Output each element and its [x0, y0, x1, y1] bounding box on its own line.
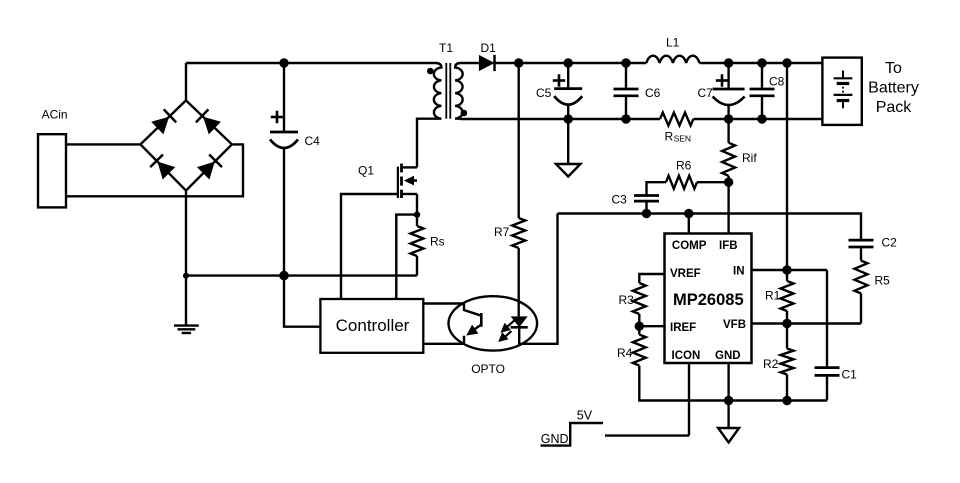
svg-text:MP26085: MP26085	[673, 291, 744, 309]
svg-text:VFB: VFB	[723, 319, 746, 331]
svg-text:R2: R2	[763, 357, 779, 371]
svg-text:C8: C8	[769, 75, 785, 89]
svg-text:Battery: Battery	[868, 80, 919, 97]
svg-text:GND: GND	[541, 432, 569, 446]
svg-text:VREF: VREF	[670, 268, 701, 280]
svg-text:SEN: SEN	[674, 134, 691, 144]
svg-text:Rif: Rif	[742, 151, 757, 165]
svg-text:R7: R7	[494, 225, 510, 239]
svg-text:GND: GND	[715, 350, 741, 362]
svg-text:C7: C7	[698, 86, 714, 100]
svg-text:T1: T1	[439, 41, 453, 55]
svg-text:To: To	[885, 60, 902, 77]
svg-text:R4: R4	[617, 346, 633, 360]
svg-text:IREF: IREF	[670, 322, 696, 334]
svg-text:ICON: ICON	[672, 350, 701, 362]
svg-text:R5: R5	[875, 274, 891, 288]
svg-text:R: R	[665, 130, 674, 144]
svg-text:OPTO: OPTO	[471, 362, 505, 376]
svg-text:D1: D1	[481, 41, 497, 55]
svg-text:5V: 5V	[577, 409, 593, 423]
svg-text:C4: C4	[305, 134, 321, 148]
svg-text:R3: R3	[619, 293, 635, 307]
svg-text:Q1: Q1	[358, 164, 374, 178]
svg-text:ACin: ACin	[42, 107, 68, 121]
svg-text:C3: C3	[612, 193, 628, 207]
svg-text:Controller: Controller	[336, 316, 410, 335]
svg-text:IFB: IFB	[719, 240, 738, 252]
svg-text:Rs: Rs	[430, 235, 445, 249]
svg-text:C2: C2	[882, 236, 898, 250]
svg-text:R6: R6	[676, 159, 692, 173]
svg-text:C1: C1	[842, 368, 858, 382]
svg-text:L1: L1	[666, 36, 680, 50]
svg-text:Pack: Pack	[876, 99, 913, 116]
svg-text:C6: C6	[645, 86, 661, 100]
svg-text:R1: R1	[765, 289, 781, 303]
svg-text:C5: C5	[536, 86, 552, 100]
svg-text:COMP: COMP	[672, 240, 707, 252]
svg-text:IN: IN	[733, 266, 745, 278]
